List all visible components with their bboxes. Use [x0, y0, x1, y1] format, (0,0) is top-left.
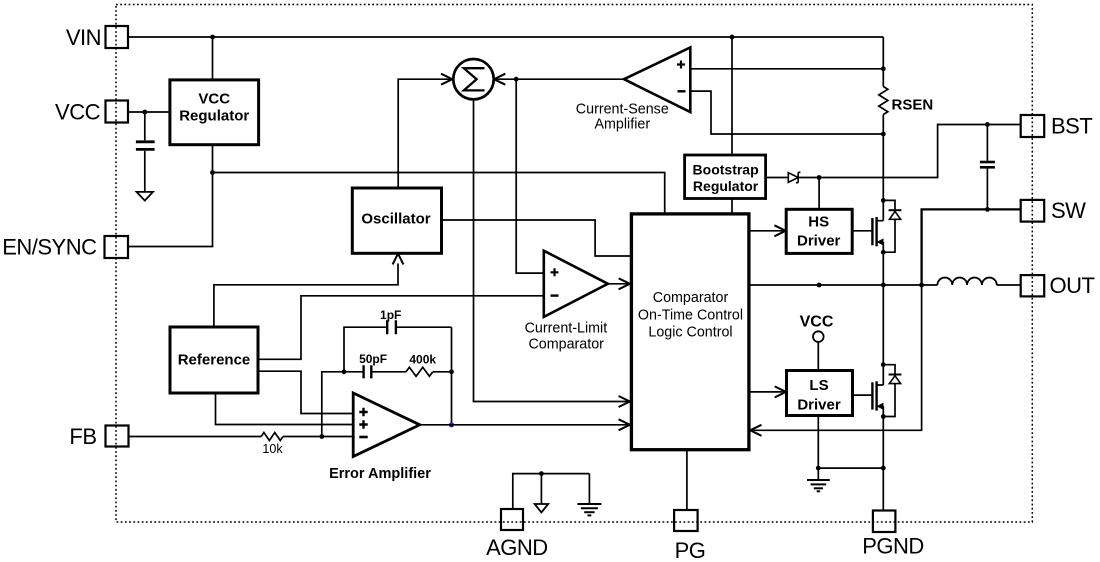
- wire: SW pin line: [922, 209, 1021, 285]
- svg-text:Amplifier: Amplifier: [594, 117, 650, 133]
- wire: logic block to HS driver with arrow: [749, 230, 786, 232]
- svg-text:Comparator: Comparator: [528, 337, 604, 353]
- svg-text:VCC: VCC: [55, 100, 101, 125]
- svg-text:HS: HS: [808, 214, 829, 231]
- op-amp U-CL current-limit comparator triangle: [544, 251, 608, 317]
- pin AGND: [501, 509, 523, 530]
- wire: LS driver return: [818, 416, 883, 469]
- wire: VCC pin to VCC Regulator: [128, 111, 170, 113]
- resistor 10k: [261, 433, 283, 441]
- node: VCC open terminal circle: [813, 331, 824, 342]
- summer sigma glyph: [464, 68, 485, 90]
- node: compensation left junction: [342, 369, 347, 374]
- resistor RSEN: [879, 37, 888, 200]
- node: VIN/VCCreg junction: [210, 35, 215, 40]
- block Reference: [170, 327, 258, 393]
- node: compensation right junction: [449, 369, 454, 374]
- svg-text:Reference: Reference: [178, 352, 251, 369]
- node: Q1 source junction: [881, 250, 886, 255]
- CSA + marker: [677, 61, 685, 69]
- wire: Q2 source to PGND rail: [882, 417, 884, 511]
- wire: VCC Regulator bottom / EN-SYNC: [128, 145, 213, 247]
- svg-text:Current-Sense: Current-Sense: [576, 101, 669, 117]
- svg-text:PGND: PGND: [862, 534, 924, 559]
- node: HS driver boot junction: [817, 175, 822, 180]
- node: RSEN bottom sense junction: [881, 132, 886, 137]
- svg-text:OUT: OUT: [1050, 273, 1095, 298]
- wire: logic block bottom to PG pin: [686, 450, 688, 510]
- CSA - marker: [678, 90, 686, 92]
- wire: VCC rail to logic block top: [213, 173, 665, 214]
- svg-text:VIN: VIN: [66, 25, 101, 50]
- svg-text:LS: LS: [809, 377, 828, 394]
- ground: AGND arrow ground: [540, 474, 542, 504]
- inductor L1: [937, 278, 996, 285]
- wire: junction down to current-limit comparator + input: [516, 79, 544, 273]
- wire: bootstrap regulator top to VIN rail: [731, 37, 733, 155]
- svg-text:On-Time Control: On-Time Control: [638, 308, 743, 324]
- node: Q2 drain junction: [881, 362, 886, 367]
- wire: FB input line: [129, 436, 261, 438]
- svg-text:Bootstrap: Bootstrap: [693, 162, 759, 178]
- block Oscillator: [352, 188, 441, 253]
- node: Q1 drain junction: [881, 198, 886, 203]
- node: SW pin junction: [919, 283, 924, 288]
- wire: CSA - input from RSEN bottom: [690, 91, 883, 134]
- svg-text:10k: 10k: [262, 442, 283, 456]
- pin SW: [1021, 200, 1044, 222]
- svg-text:Current-Limit: Current-Limit: [525, 321, 608, 337]
- svg-text:PG: PG: [675, 538, 706, 562]
- EA + marker 1: [359, 408, 367, 416]
- wire: logic block to LS driver with arrow: [749, 391, 786, 393]
- wire: CSA output to summer with arrow: [495, 78, 625, 80]
- svg-text:Error Amplifier: Error Amplifier: [329, 466, 431, 482]
- wire: LS gate lead: [853, 394, 873, 396]
- wire: CSA + input from RSEN top: [690, 68, 883, 70]
- block HS Driver: [786, 209, 852, 253]
- node: VIN/bootstrap junction: [730, 35, 735, 40]
- svg-text:VCC: VCC: [800, 314, 834, 331]
- node: BST cap top junction: [985, 122, 990, 127]
- wire: VCC terminal to LS driver top: [817, 342, 819, 371]
- ground: VCC cap arrow ground: [137, 192, 153, 201]
- svg-text:FB: FB: [69, 424, 96, 449]
- svg-text:AGND: AGND: [486, 535, 548, 560]
- wire: reference out to current-limit comparator - input: [258, 296, 544, 360]
- node: FB compensation junction: [319, 434, 324, 439]
- Q1 body diode: [883, 200, 895, 252]
- ground: AGND earth ground: [588, 474, 590, 504]
- node: LS return junction: [816, 466, 821, 471]
- capacitor C-BST: [986, 125, 988, 161]
- EA + marker 2: [359, 420, 367, 428]
- Q2 body diode: [883, 365, 895, 417]
- CL + marker: [551, 268, 559, 276]
- op-amp U-EA error amplifier triangle: [353, 393, 420, 457]
- node: phase node junction: [881, 283, 886, 288]
- EA - marker: [359, 436, 367, 439]
- wire: HS gate lead: [852, 230, 872, 232]
- wire: reference to oscillator bottom with arrow: [214, 264, 398, 328]
- wire: SW sense down and into logic block with arrow: [750, 285, 921, 430]
- svg-text:SW: SW: [1051, 198, 1086, 223]
- svg-text:BST: BST: [1051, 114, 1092, 139]
- block Bootstrap Regulator: [685, 155, 766, 199]
- capacitor C-VCC: [144, 112, 146, 140]
- wire: CL output arrow into logic block: [608, 283, 630, 285]
- CL - marker: [551, 294, 559, 296]
- pin FB: [106, 426, 129, 447]
- wire: bootstrap output: [766, 177, 789, 179]
- pin VCC: [106, 101, 129, 123]
- wire: VIN rail y=37: [128, 36, 883, 38]
- wire: compensation right leg: [451, 327, 453, 425]
- node: AGND junction: [539, 471, 544, 476]
- node: summer input junction: [514, 77, 519, 82]
- summer U-sum circle: [453, 59, 493, 99]
- resistor 400k: [406, 367, 433, 376]
- wire: VIN to VCC Regulator top: [212, 37, 214, 80]
- node: HS driver return junction: [817, 283, 822, 288]
- svg-text:Logic Control: Logic Control: [648, 325, 732, 341]
- wire: oscillator top to summer with arrow: [398, 79, 452, 188]
- wire: oscillator output to logic block: [442, 220, 632, 256]
- svg-text:1pF: 1pF: [380, 308, 401, 322]
- capacitor 50pF: [344, 371, 406, 373]
- ground: LS driver earth ground: [817, 468, 819, 480]
- wire: boot junction down to HS driver: [818, 178, 820, 210]
- wire: SW node line from logic block to inductor: [749, 284, 938, 286]
- wire: FB node up to compensation network: [322, 372, 344, 437]
- node: PGND junction: [881, 466, 886, 471]
- svg-text:Driver: Driver: [797, 397, 841, 414]
- wire: inductor to OUT pin: [997, 284, 1021, 286]
- node: VCC rail junction: [210, 170, 215, 175]
- node: Q2 source junction: [881, 414, 886, 419]
- svg-text:VCC: VCC: [198, 90, 230, 107]
- op-amp U-CSA current-sense amplifier triangle: [624, 48, 690, 113]
- node: VCC cap junction: [142, 110, 147, 115]
- block VCC Regulator: [170, 80, 259, 145]
- node: BST cap bottom junction on SW line: [985, 207, 990, 212]
- svg-text:RSEN: RSEN: [892, 97, 934, 114]
- wire: reference bottom to error amp + input 2: [216, 393, 354, 425]
- IC boundary dashed box: [116, 5, 1032, 523]
- wire: bootstrap regulator bottom to logic block: [731, 199, 733, 214]
- svg-text:Oscillator: Oscillator: [361, 211, 430, 228]
- pin OUT: [1021, 275, 1044, 296]
- wire: EA output to logic block with arrow: [420, 424, 630, 426]
- svg-text:Regulator: Regulator: [179, 107, 249, 124]
- pin VIN: [106, 26, 129, 48]
- svg-text:50pF: 50pF: [359, 352, 387, 366]
- svg-text:400k: 400k: [409, 352, 436, 366]
- pin PGND: [873, 511, 896, 533]
- diode D1 bootstrap schottky: [788, 173, 798, 183]
- svg-text:Regulator: Regulator: [693, 178, 759, 194]
- pin PG: [674, 510, 698, 531]
- block LS Driver: [787, 371, 853, 416]
- node: RSEN top sense junction: [881, 66, 886, 71]
- block Comparator / On-Time Control / Logic Control: [631, 214, 749, 450]
- svg-text:EN/SYNC: EN/SYNC: [2, 235, 97, 260]
- wire: reference out2 to error amp + input: [258, 371, 354, 413]
- wire: summer output down to logic block with arrow: [474, 99, 630, 401]
- wire: AGND pin riser: [513, 474, 590, 509]
- svg-text:Comparator: Comparator: [653, 290, 729, 306]
- capacitor 1pF branch: [344, 327, 452, 372]
- transistor Q2 LS MOSFET: [871, 382, 873, 409]
- wire: diode to BST riser: [798, 125, 1021, 178]
- svg-text:Driver: Driver: [797, 233, 841, 250]
- pin BST: [1021, 115, 1044, 137]
- wire: Q1 source to Q2 drain: [882, 252, 884, 365]
- transistor Q1 HS MOSFET: [871, 218, 873, 245]
- node: error amp output junction: [449, 422, 454, 427]
- pin EN/SYNC: [105, 236, 129, 258]
